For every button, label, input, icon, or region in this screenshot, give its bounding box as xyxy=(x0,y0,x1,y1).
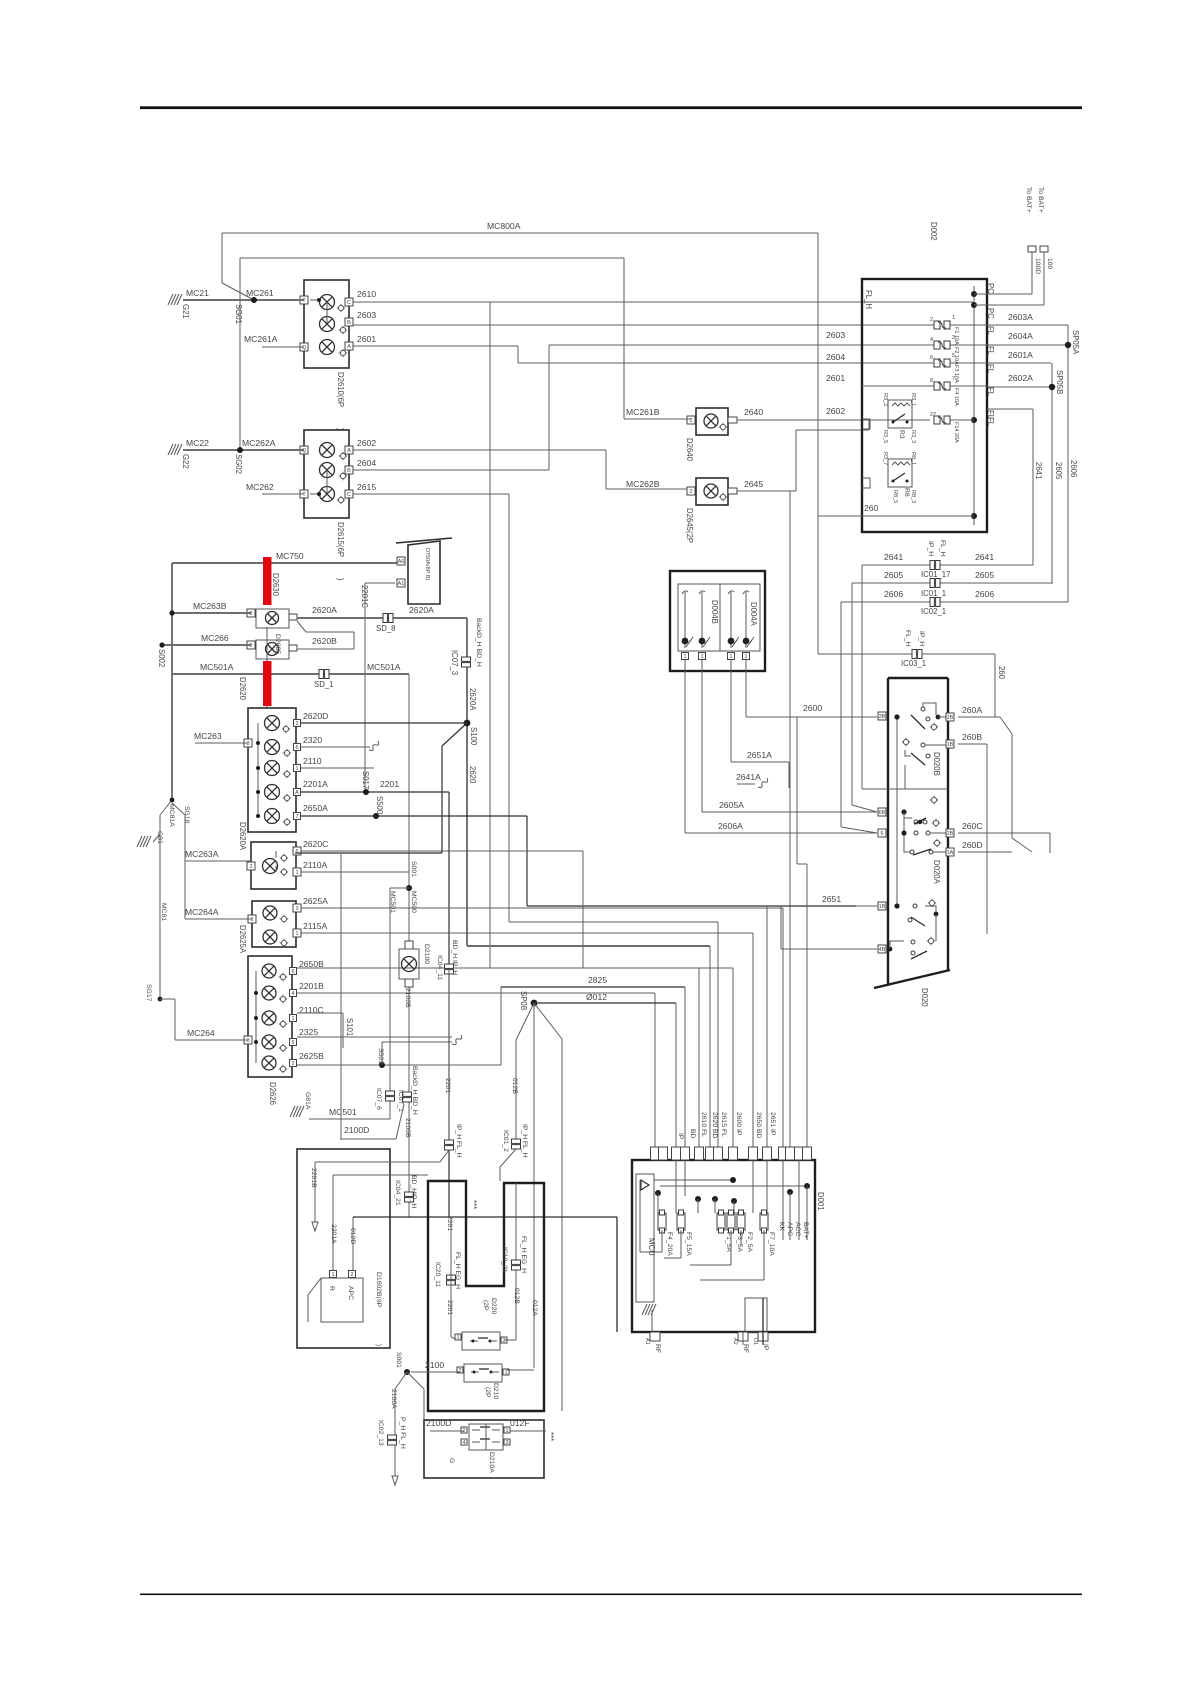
svg-text:2602: 2602 xyxy=(826,406,845,416)
svg-text:1: 1 xyxy=(295,870,298,876)
svg-text:MC501: MC501 xyxy=(389,891,396,913)
svg-text:MC264A: MC264A xyxy=(185,907,219,917)
svg-text:MC263: MC263 xyxy=(194,731,222,741)
svg-text:FL_H EG_H: FL_H EG_H xyxy=(520,1236,527,1273)
svg-text:2600: 2600 xyxy=(803,703,822,713)
svg-text:MC21: MC21 xyxy=(186,288,209,298)
svg-text:F3_5A: F3_5A xyxy=(736,1232,743,1252)
svg-text:MC261A: MC261A xyxy=(244,334,278,344)
svg-text:B: B xyxy=(347,320,351,326)
svg-text:IC03_1: IC03_1 xyxy=(901,659,926,668)
svg-text:S002: S002 xyxy=(157,649,166,667)
svg-text:2201B: 2201B xyxy=(310,1168,317,1188)
svg-text:FL_H: FL_H xyxy=(864,290,873,309)
svg-text:D001: D001 xyxy=(816,1192,825,1211)
svg-text:IC01_2: IC01_2 xyxy=(502,1130,509,1152)
svg-text:2: 2 xyxy=(689,489,692,495)
svg-text:SP05B: SP05B xyxy=(1055,370,1064,394)
svg-text:2605: 2605 xyxy=(1054,462,1063,480)
svg-text:MC262: MC262 xyxy=(246,482,274,492)
svg-text:2201: 2201 xyxy=(446,1216,453,1231)
svg-text:6B: 6B xyxy=(879,810,886,816)
svg-text:D750A(8P B): D750A(8P B) xyxy=(424,548,430,580)
svg-text:A: A xyxy=(347,448,351,454)
svg-text:A: A xyxy=(347,344,351,350)
svg-text:012F: 012F xyxy=(510,1418,530,1428)
svg-text:7: 7 xyxy=(952,376,955,382)
svg-text:1: 1 xyxy=(331,1272,334,1278)
svg-text:2: 2 xyxy=(458,1368,461,1374)
svg-text:2615 FL: 2615 FL xyxy=(720,1112,727,1137)
svg-text:C: C xyxy=(347,300,351,306)
svg-text:MC501A: MC501A xyxy=(367,662,401,672)
svg-text:2650A: 2650A xyxy=(303,803,328,813)
svg-text:2620D: 2620D xyxy=(303,711,328,721)
svg-text:MC262A: MC262A xyxy=(242,438,276,448)
svg-text:R3_3: R3_3 xyxy=(910,430,916,443)
svg-text:2100: 2100 xyxy=(425,1360,444,1370)
svg-text:1: 1 xyxy=(291,1016,294,1022)
svg-text:5: 5 xyxy=(291,1040,294,1046)
svg-text:A2: A2 xyxy=(732,1338,738,1345)
svg-text:BD: BD xyxy=(689,1129,696,1139)
svg-text:1: 1 xyxy=(683,654,686,660)
svg-text:S501: S501 xyxy=(377,1048,384,1064)
svg-text:BackD_H BD_H: BackD_H BD_H xyxy=(411,1066,418,1115)
svg-text:2600 IP: 2600 IP xyxy=(735,1112,742,1136)
svg-text:S100: S100 xyxy=(469,727,478,746)
svg-text:MC262B: MC262B xyxy=(626,479,660,489)
svg-text:D2645(2P: D2645(2P xyxy=(685,508,694,543)
svg-text:(2P: (2P xyxy=(484,1387,491,1398)
svg-text:4: 4 xyxy=(930,337,933,343)
svg-text:6: 6 xyxy=(295,745,298,751)
svg-text:S101: S101 xyxy=(345,1018,354,1036)
svg-text:2606: 2606 xyxy=(1069,460,1078,477)
svg-text:2625A: 2625A xyxy=(303,896,328,906)
svg-text:D1: D1 xyxy=(752,1338,758,1345)
svg-text:F14 20A: F14 20A xyxy=(953,422,959,443)
svg-text:APC: APC xyxy=(347,1286,354,1300)
svg-text:260: 260 xyxy=(997,666,1006,680)
svg-text:RF: RF xyxy=(742,1344,749,1353)
svg-text:D220: D220 xyxy=(490,1298,497,1314)
svg-text:1: 1 xyxy=(729,654,732,660)
svg-text:MC264: MC264 xyxy=(187,1028,215,1038)
svg-text:2620A: 2620A xyxy=(468,688,477,711)
svg-text:S001: S001 xyxy=(395,1352,402,1368)
svg-text:5: 5 xyxy=(952,353,955,359)
svg-text:7: 7 xyxy=(295,814,298,820)
svg-text:R3_2: R3_2 xyxy=(882,393,888,406)
svg-text:2602: 2602 xyxy=(357,438,376,448)
svg-text:G21: G21 xyxy=(181,304,190,319)
svg-text:SG01: SG01 xyxy=(234,304,243,324)
svg-text:R8: R8 xyxy=(903,488,910,497)
svg-text:R3_7: R3_7 xyxy=(882,452,888,465)
svg-text:IP_H: IP_H xyxy=(927,541,934,556)
svg-text:R3: R3 xyxy=(898,430,905,439)
svg-text:MC266: MC266 xyxy=(201,633,229,643)
svg-text:2825: 2825 xyxy=(588,975,607,985)
svg-text:A1: A1 xyxy=(398,581,405,587)
svg-text:2201: 2201 xyxy=(446,1300,453,1315)
svg-text:IC01_17: IC01_17 xyxy=(921,570,950,579)
svg-text:012B: 012B xyxy=(513,1288,520,1304)
svg-text:D2626: D2626 xyxy=(268,1082,277,1105)
svg-text:SD_1: SD_1 xyxy=(314,680,334,689)
svg-text:1: 1 xyxy=(504,1370,507,1376)
svg-text:260: 260 xyxy=(864,503,879,513)
svg-text:2641A: 2641A xyxy=(736,772,761,782)
svg-text:SP08: SP08 xyxy=(519,991,528,1010)
svg-text:FL: FL xyxy=(986,410,995,420)
svg-text:D020: D020 xyxy=(920,988,929,1007)
svg-text:3: 3 xyxy=(246,1038,249,1044)
svg-text:D2100: D2100 xyxy=(423,944,430,964)
svg-text:D2640: D2640 xyxy=(685,438,694,462)
svg-text:R: R xyxy=(328,1286,335,1291)
svg-text:MC81A: MC81A xyxy=(168,804,175,827)
svg-text:D210: D210 xyxy=(492,1383,499,1399)
svg-text:RF: RF xyxy=(654,1344,661,1353)
svg-text:SD_8: SD_8 xyxy=(376,624,396,633)
svg-text:To BAT+: To BAT+ xyxy=(1037,187,1044,213)
svg-text:BAT+: BAT+ xyxy=(802,1222,809,1239)
svg-text:SP05A: SP05A xyxy=(1071,330,1080,355)
svg-text:2604: 2604 xyxy=(357,458,376,468)
svg-text:IP_H FL_H: IP_H FL_H xyxy=(455,1124,462,1158)
svg-text:2641: 2641 xyxy=(884,552,903,562)
svg-text:2201A: 2201A xyxy=(303,779,328,789)
svg-text:2640: 2640 xyxy=(744,407,763,417)
svg-text:012D: 012D xyxy=(349,1228,356,1244)
svg-text:1B: 1B xyxy=(947,742,954,748)
svg-text:MCU: MCU xyxy=(647,1238,656,1256)
svg-text:2605: 2605 xyxy=(975,570,994,580)
svg-text:IP_H: IP_H xyxy=(918,631,925,646)
svg-text:2: 2 xyxy=(502,1338,505,1344)
svg-text:ACC: ACC xyxy=(794,1222,801,1236)
svg-text:260D: 260D xyxy=(962,840,983,850)
svg-text:MC501A: MC501A xyxy=(200,662,234,672)
svg-text:2625B: 2625B xyxy=(299,1051,324,1061)
svg-text:2100A: 2100A xyxy=(390,1389,397,1409)
svg-text:260A: 260A xyxy=(962,705,982,715)
svg-text:2604A: 2604A xyxy=(1008,331,1033,341)
svg-text:2606: 2606 xyxy=(884,589,903,599)
svg-text:2201C: 2201C xyxy=(360,585,369,608)
svg-text:3: 3 xyxy=(295,906,298,912)
svg-text:D2630: D2630 xyxy=(271,573,280,597)
svg-text:PC: PC xyxy=(986,283,995,294)
svg-text:***: *** xyxy=(469,1200,478,1209)
svg-text:2: 2 xyxy=(249,864,252,870)
svg-text:2601A: 2601A xyxy=(1008,350,1033,360)
svg-text:IC19_21: IC19_21 xyxy=(501,1247,508,1273)
svg-text:SG17: SG17 xyxy=(145,984,152,1002)
svg-text:2100D: 2100D xyxy=(344,1125,369,1135)
svg-text:F7_10A: F7_10A xyxy=(768,1232,775,1256)
svg-text:2641: 2641 xyxy=(1034,462,1043,479)
svg-text:IC02_1: IC02_1 xyxy=(921,607,946,616)
svg-text:MC500: MC500 xyxy=(410,891,417,913)
svg-text:2610: 2610 xyxy=(357,289,376,299)
svg-text:2620A: 2620A xyxy=(409,605,434,615)
svg-text:2325: 2325 xyxy=(299,1027,318,1037)
svg-text:D210A: D210A xyxy=(488,1452,495,1473)
svg-text:2100B: 2100B xyxy=(404,988,411,1008)
svg-text:G81A: G81A xyxy=(304,1092,311,1110)
svg-text:3: 3 xyxy=(505,1440,508,1446)
svg-text:6: 6 xyxy=(930,355,933,361)
svg-text:D004B: D004B xyxy=(710,600,719,624)
svg-text:C: C xyxy=(347,492,351,498)
svg-text:4: 4 xyxy=(291,991,294,997)
svg-text:P_H FL_H: P_H FL_H xyxy=(399,1417,406,1449)
svg-text:3B: 3B xyxy=(879,714,886,720)
svg-text:2: 2 xyxy=(350,1272,353,1278)
svg-text:IP: IP xyxy=(677,1133,684,1140)
svg-text:D2610(6P: D2610(6P xyxy=(336,372,345,407)
svg-text:2201B: 2201B xyxy=(299,981,324,991)
svg-text:1: 1 xyxy=(456,1335,459,1341)
svg-text:2620 BD: 2620 BD xyxy=(711,1112,718,1139)
svg-text:2610 FL: 2610 FL xyxy=(700,1112,707,1137)
svg-text:4: 4 xyxy=(462,1440,465,1446)
svg-text:8: 8 xyxy=(930,378,933,384)
svg-text:D020B: D020B xyxy=(932,752,941,776)
svg-text:(2P: (2P xyxy=(482,1300,489,1311)
svg-text:1: 1 xyxy=(744,654,747,660)
svg-text:2606: 2606 xyxy=(975,589,994,599)
svg-text:Ø012: Ø012 xyxy=(586,992,607,1002)
svg-text:To BAT+: To BAT+ xyxy=(1025,187,1032,213)
svg-text:IP_H FL_H: IP_H FL_H xyxy=(521,1124,528,1158)
svg-text:100D: 100D xyxy=(1034,258,1041,274)
svg-text:IC01_1: IC01_1 xyxy=(921,589,946,598)
svg-text:PC: PC xyxy=(986,308,995,319)
svg-text:FL: FL xyxy=(986,326,995,336)
svg-text:S500: S500 xyxy=(375,796,384,815)
svg-text:FL: FL xyxy=(986,346,995,356)
svg-text:D004A: D004A xyxy=(749,602,758,627)
svg-text:F2_5A: F2_5A xyxy=(746,1232,753,1252)
svg-text:2620A: 2620A xyxy=(312,605,337,615)
svg-text:1: 1 xyxy=(295,766,298,772)
svg-text:2: 2 xyxy=(930,317,933,323)
svg-text:2100D: 2100D xyxy=(426,1418,451,1428)
svg-text:2201: 2201 xyxy=(380,779,399,789)
svg-text:IP: IP xyxy=(762,1344,769,1351)
svg-text:BD_HIP_H: BD_HIP_H xyxy=(410,1175,417,1208)
svg-text:2320: 2320 xyxy=(303,735,322,745)
svg-text:): ) xyxy=(336,578,345,581)
svg-text:2651A: 2651A xyxy=(747,750,772,760)
svg-text:6: 6 xyxy=(291,969,294,975)
svg-text:G81: G81 xyxy=(156,831,163,844)
svg-text:2B: 2B xyxy=(947,715,954,721)
svg-text:APC: APC xyxy=(786,1222,793,1236)
svg-text:2: 2 xyxy=(291,1061,294,1067)
svg-text:D020A: D020A xyxy=(932,860,941,885)
svg-text:1B: 1B xyxy=(879,904,886,910)
svg-text:MC263A: MC263A xyxy=(185,849,219,859)
svg-text:): ) xyxy=(375,1344,382,1346)
svg-text:260C: 260C xyxy=(962,821,983,831)
svg-text:F4 10A: F4 10A xyxy=(953,388,959,406)
svg-text:2B: 2B xyxy=(947,831,954,837)
svg-text:2110A: 2110A xyxy=(303,860,327,870)
svg-text:22: 22 xyxy=(930,412,936,418)
svg-text:IC04_21: IC04_21 xyxy=(394,1180,401,1206)
svg-text:2651 IP: 2651 IP xyxy=(769,1112,776,1136)
svg-text:1: 1 xyxy=(700,654,703,660)
svg-text:2605: 2605 xyxy=(884,570,903,580)
svg-text:260B: 260B xyxy=(962,732,982,742)
svg-text:MC261: MC261 xyxy=(246,288,274,298)
svg-text:R8_5: R8_5 xyxy=(892,490,898,503)
svg-text:R3_5: R3_5 xyxy=(882,430,888,443)
svg-text:A6: A6 xyxy=(398,559,405,565)
svg-text:MC501: MC501 xyxy=(329,1107,357,1117)
svg-text:6: 6 xyxy=(295,849,298,855)
svg-text:2201A: 2201A xyxy=(330,1224,337,1244)
svg-text:R8_1: R8_1 xyxy=(910,452,916,465)
svg-text:FL_H EG_H: FL_H EG_H xyxy=(454,1252,461,1289)
svg-text:2601: 2601 xyxy=(826,373,845,383)
svg-text:2602A: 2602A xyxy=(1008,373,1033,383)
svg-text:2603: 2603 xyxy=(357,310,376,320)
svg-text:2603: 2603 xyxy=(826,330,845,340)
svg-text:2641: 2641 xyxy=(975,552,994,562)
svg-text:Q: Q xyxy=(302,345,307,351)
svg-text:FL_H: FL_H xyxy=(904,630,911,647)
svg-text:IC02_13: IC02_13 xyxy=(377,1420,384,1446)
svg-text:S001: S001 xyxy=(410,861,417,877)
svg-text:A: A xyxy=(295,790,299,796)
svg-text:MC81: MC81 xyxy=(160,903,167,921)
svg-text:R8_3: R8_3 xyxy=(910,490,916,503)
svg-text:MC800A: MC800A xyxy=(487,221,521,231)
svg-text:F5_15A: F5_15A xyxy=(685,1232,692,1256)
svg-text:2100B: 2100B xyxy=(404,1118,411,1138)
svg-text:2603A: 2603A xyxy=(1008,312,1033,322)
svg-text:D2625A: D2625A xyxy=(238,925,247,954)
svg-text:2604: 2604 xyxy=(826,352,845,362)
svg-text:MC261B: MC261B xyxy=(626,407,660,417)
svg-text:F4_20A: F4_20A xyxy=(666,1232,673,1256)
svg-text:100: 100 xyxy=(1046,258,1053,270)
svg-text:2201: 2201 xyxy=(444,1078,451,1093)
svg-text:2620: 2620 xyxy=(468,766,477,784)
svg-text:FL_H: FL_H xyxy=(939,540,946,557)
svg-text:2110: 2110 xyxy=(303,756,322,766)
svg-text:2620B: 2620B xyxy=(312,636,337,646)
svg-text:6: 6 xyxy=(880,831,883,837)
svg-text:1: 1 xyxy=(952,315,955,321)
svg-text:3: 3 xyxy=(952,335,955,341)
svg-text:***: *** xyxy=(546,1432,555,1441)
svg-text:G22: G22 xyxy=(181,454,190,469)
svg-text:2605A: 2605A xyxy=(719,800,744,810)
svg-text:2115A: 2115A xyxy=(303,921,327,931)
svg-text:R3_1: R3_1 xyxy=(910,393,916,406)
svg-text:S017: S017 xyxy=(361,771,370,789)
svg-text:IC07_3: IC07_3 xyxy=(450,650,459,675)
svg-text:D2605: D2605 xyxy=(274,634,281,654)
svg-text:MC22: MC22 xyxy=(186,438,209,448)
svg-text:2606A: 2606A xyxy=(718,821,743,831)
svg-text:2645: 2645 xyxy=(744,479,763,489)
svg-text:D2620: D2620 xyxy=(238,677,247,701)
svg-text:2651: 2651 xyxy=(822,894,841,904)
svg-text:3: 3 xyxy=(246,741,249,747)
svg-text:G: G xyxy=(448,1458,455,1463)
svg-text:D002: D002 xyxy=(929,222,938,241)
svg-text:1: 1 xyxy=(295,931,298,937)
svg-text:KK: KK xyxy=(778,1222,785,1232)
svg-text:1A: 1A xyxy=(947,850,954,856)
svg-text:D2620A: D2620A xyxy=(238,822,247,851)
svg-text:SG02: SG02 xyxy=(234,454,243,474)
svg-text:IC07_6: IC07_6 xyxy=(375,1088,382,1110)
svg-text:IC20_11: IC20_11 xyxy=(434,1262,441,1287)
svg-text:MC263B: MC263B xyxy=(193,601,227,611)
svg-text:2615: 2615 xyxy=(357,482,376,492)
svg-text:D1602B(9P: D1602B(9P xyxy=(375,1272,382,1308)
svg-text:2: 2 xyxy=(295,721,298,727)
svg-text:MC750: MC750 xyxy=(276,551,304,561)
svg-text:012A: 012A xyxy=(531,1300,538,1316)
svg-text:A1: A1 xyxy=(644,1338,650,1345)
svg-text:1: 1 xyxy=(505,1428,508,1434)
svg-text:IC04_11: IC04_11 xyxy=(436,955,443,980)
svg-text:2650 BD: 2650 BD xyxy=(755,1112,762,1139)
svg-text:D2615(6P: D2615(6P xyxy=(336,522,345,557)
svg-text:B: B xyxy=(347,468,351,474)
svg-text:FL: FL xyxy=(986,364,995,374)
svg-text:2: 2 xyxy=(250,917,253,923)
svg-text:BackD_H BD_H: BackD_H BD_H xyxy=(475,618,482,667)
svg-text:012B: 012B xyxy=(511,1078,518,1094)
svg-text:2601: 2601 xyxy=(357,334,376,344)
svg-text:2620C: 2620C xyxy=(303,839,328,849)
svg-text:FL: FL xyxy=(986,387,995,397)
svg-text:4B: 4B xyxy=(879,947,886,953)
